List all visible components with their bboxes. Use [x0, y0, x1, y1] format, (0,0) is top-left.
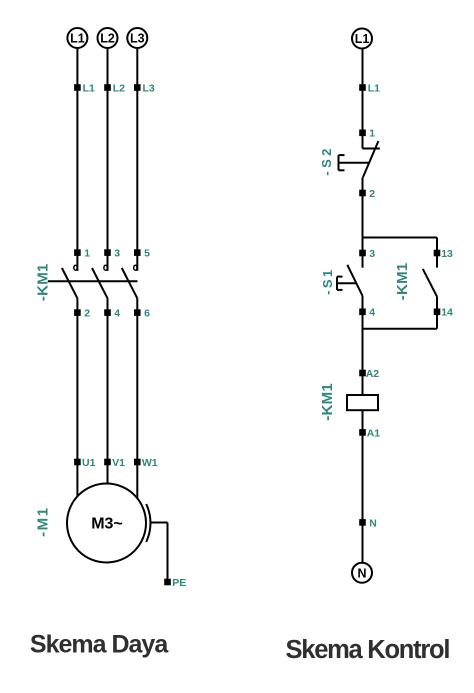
- svg-text:N: N: [357, 566, 366, 580]
- svg-text:PE: PE: [172, 577, 186, 589]
- svg-text:3: 3: [114, 248, 120, 260]
- svg-text:1: 1: [369, 128, 375, 140]
- svg-text:4: 4: [114, 308, 120, 320]
- svg-text:V1: V1: [112, 457, 125, 469]
- svg-text:N: N: [369, 517, 377, 529]
- svg-text:6: 6: [144, 308, 150, 320]
- svg-text:-KM1: -KM1: [394, 263, 411, 301]
- svg-text:L1: L1: [368, 82, 380, 94]
- svg-text:-KM1: -KM1: [34, 264, 51, 302]
- svg-text:1: 1: [84, 248, 90, 260]
- svg-text:L3: L3: [130, 32, 145, 46]
- svg-text:-S1: -S1: [320, 270, 335, 295]
- svg-text:-KM1: -KM1: [319, 383, 336, 421]
- svg-text:5: 5: [144, 248, 150, 260]
- svg-text:W1: W1: [142, 457, 158, 469]
- svg-text:L3: L3: [143, 82, 155, 94]
- svg-text:Skema Kontrol: Skema Kontrol: [286, 636, 450, 664]
- svg-text:L1: L1: [83, 82, 95, 94]
- svg-text:2: 2: [369, 188, 375, 200]
- svg-text:L2: L2: [100, 32, 115, 46]
- svg-text:A1: A1: [367, 427, 381, 439]
- svg-text:14: 14: [441, 307, 453, 319]
- svg-text:U1: U1: [82, 457, 96, 469]
- svg-text:-S2: -S2: [319, 149, 334, 176]
- svg-text:A2: A2: [366, 368, 380, 380]
- svg-text:-M1: -M1: [34, 508, 51, 537]
- svg-text:M3~: M3~: [91, 516, 123, 533]
- svg-text:13: 13: [441, 248, 453, 260]
- svg-text:3: 3: [369, 248, 375, 260]
- svg-text:2: 2: [84, 308, 90, 320]
- svg-text:Skema Daya: Skema Daya: [30, 631, 169, 659]
- svg-text:L1: L1: [70, 32, 85, 46]
- svg-text:L1: L1: [355, 32, 370, 46]
- svg-text:L2: L2: [113, 82, 125, 94]
- svg-text:4: 4: [369, 307, 375, 319]
